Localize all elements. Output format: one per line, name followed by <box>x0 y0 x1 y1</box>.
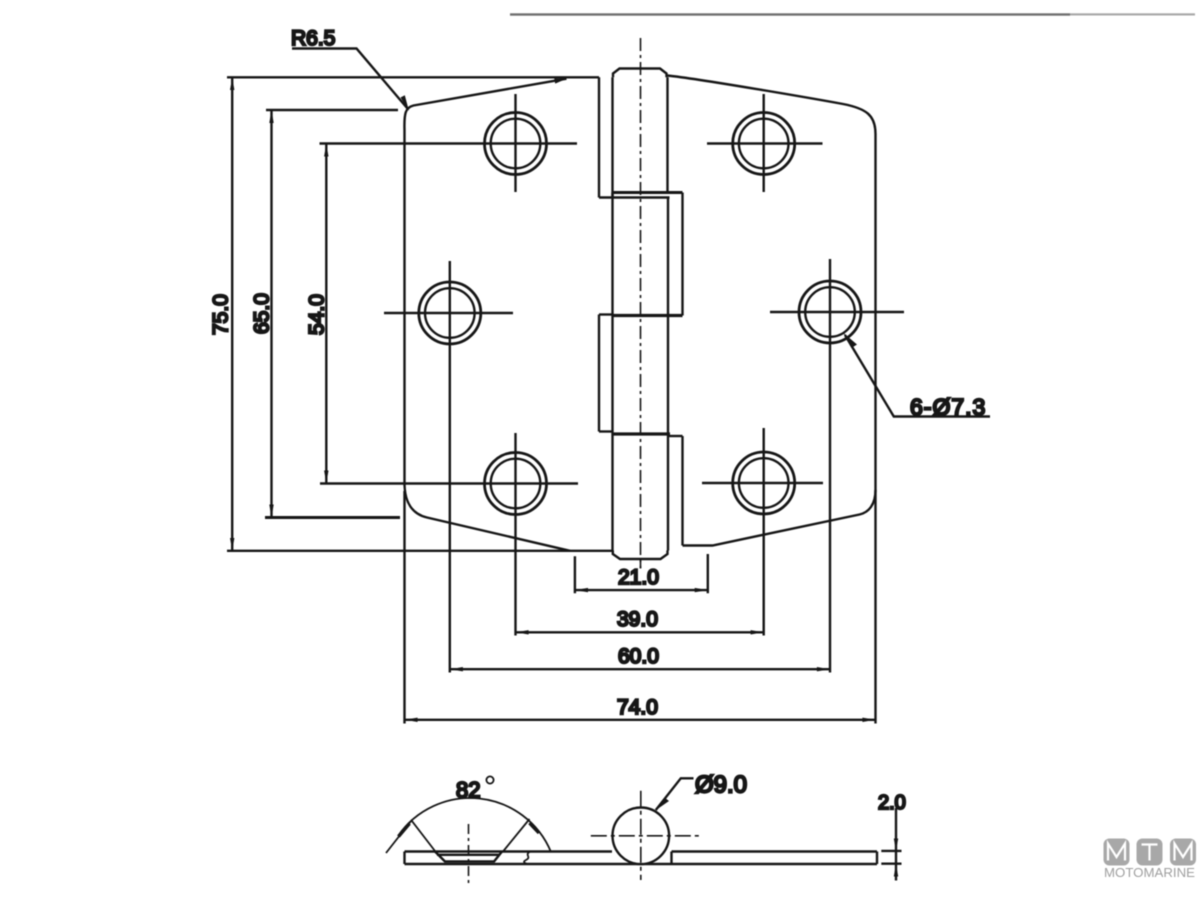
dim 75.0 extension top <box>227 76 599 78</box>
svg-text:MOTOMARINE: MOTOMARINE <box>1104 865 1195 880</box>
side view countersink recess <box>435 852 502 862</box>
dim 65.0 extension top <box>266 109 398 111</box>
barrel: segment1 pin left edge <box>611 77 613 197</box>
barrel: segment4 right edge <box>681 436 683 546</box>
dim 54.0 arrows <box>324 144 328 484</box>
dim 65.0 extension bottom <box>265 516 400 519</box>
logo square 2 <box>1137 839 1163 866</box>
barrel: pin top cap <box>613 69 667 78</box>
barrel: segment1 right edge <box>666 77 668 192</box>
barrel: pin bottom cap <box>613 551 668 560</box>
dim 2.0 line <box>895 808 897 881</box>
dim 74.0 line <box>405 719 876 721</box>
centerline tick below pin <box>640 560 642 569</box>
barrel: segment2 inner pin edge <box>667 198 669 316</box>
dim 39.0 arrows <box>516 630 764 634</box>
dim 2.0 extensions <box>881 851 901 864</box>
angle right flank <box>503 819 530 852</box>
dim 39.0 line <box>516 631 764 633</box>
leader 6-d7.3 arrowhead <box>843 333 857 349</box>
dim 74.0 extensions <box>405 490 876 724</box>
svg-text:6-Ø7.3: 6-Ø7.3 <box>910 394 986 420</box>
barrel: segment4 top right step <box>668 435 683 437</box>
dim 65.0 arrows <box>269 110 273 518</box>
barrel pin centerline <box>640 38 642 568</box>
svg-text:39.0: 39.0 <box>617 608 658 631</box>
hole bottom-left <box>485 433 547 535</box>
svg-text:82: 82 <box>456 778 480 803</box>
svg-text:74.0: 74.0 <box>617 696 658 719</box>
barrel: segment2 right edge <box>681 193 683 316</box>
barrel: segment3 bottom thick edge <box>613 432 671 435</box>
dim 54.0 extension bottom / bottom hole crossline <box>320 482 578 484</box>
dim 75.0 line <box>231 77 233 551</box>
hole middle-right <box>770 259 904 365</box>
dim 74.0 arrows <box>405 718 876 722</box>
barrel: segment2 left edge <box>611 193 613 316</box>
hole top-left <box>485 94 547 192</box>
barrel: left cutout edge upper <box>598 77 600 197</box>
dim 21.0 arrows <box>575 588 708 592</box>
barrel: segment3 top left step <box>599 313 613 315</box>
dim 60.0 extensions <box>450 365 830 673</box>
MTM logo <box>1104 839 1197 881</box>
dim 54.0 line <box>325 144 327 484</box>
dim 39.0 extensions <box>516 535 764 636</box>
dim 75.0 arrows <box>230 77 234 551</box>
barrel: segment3 left pin edge <box>611 316 613 435</box>
barrel: segment1 bottom edge <box>599 196 670 198</box>
dim 75.0 extension bottom / leaf cutout bottom edge <box>227 550 613 552</box>
dim 21.0 line <box>575 589 708 591</box>
scan artifact line top <box>510 13 1195 15</box>
svg-text:75.0: 75.0 <box>210 294 233 335</box>
svg-text:2.0: 2.0 <box>878 792 906 814</box>
angle left flank <box>386 821 435 854</box>
svg-text:Ø9.0: Ø9.0 <box>695 772 747 799</box>
barrel: segment4 inner pin edge <box>667 434 669 551</box>
left leaf outline <box>404 79 570 551</box>
svg-text:R6.5: R6.5 <box>291 27 335 50</box>
barrel: left cutout edge lower <box>598 315 600 432</box>
svg-text:54.0: 54.0 <box>306 294 329 335</box>
logo square 1 <box>1104 839 1130 866</box>
svg-text:60.0: 60.0 <box>618 645 659 668</box>
side view barrel centerlines <box>591 835 699 837</box>
dim 2.0 arrows <box>894 839 898 877</box>
logo square 3 <box>1170 839 1196 866</box>
angle arc 82deg <box>398 798 551 852</box>
right leaf outline <box>668 76 876 546</box>
countersink centerline <box>468 824 470 884</box>
hole top-right <box>707 94 823 192</box>
angle arrows <box>399 823 540 837</box>
hole middle-left <box>384 261 513 365</box>
barrel: segment3 right edge <box>667 316 669 435</box>
svg-text:65.0: 65.0 <box>251 293 274 334</box>
dim 65.0 line <box>270 110 272 518</box>
leader R6.5 <box>292 49 408 109</box>
dim 21.0 extensions <box>575 554 708 593</box>
leader R6.5 arrowhead <box>401 95 410 111</box>
hole bottom-right <box>702 428 823 535</box>
barrel: segment2 bottom thick edge <box>613 314 683 317</box>
side view bar <box>405 852 878 865</box>
barrel: segment2 top thick edge <box>613 191 683 194</box>
leader d9.0 arrowhead <box>655 798 669 811</box>
dim 60.0 line <box>450 668 830 670</box>
left leaf top-edge arrowhead <box>554 79 566 84</box>
leader 6-d7.3 <box>845 335 990 417</box>
side view break squiggle <box>524 852 530 865</box>
barrel: segment4 left edge <box>611 434 613 551</box>
dim 54.0 extension top / top hole crossline <box>320 142 578 144</box>
leader d9.0 <box>656 778 694 810</box>
svg-text:21.0: 21.0 <box>618 566 659 589</box>
barrel: segment3 bottom left step <box>599 430 613 432</box>
side view barrel circle <box>613 808 670 865</box>
dim 60.0 arrows <box>450 667 830 671</box>
